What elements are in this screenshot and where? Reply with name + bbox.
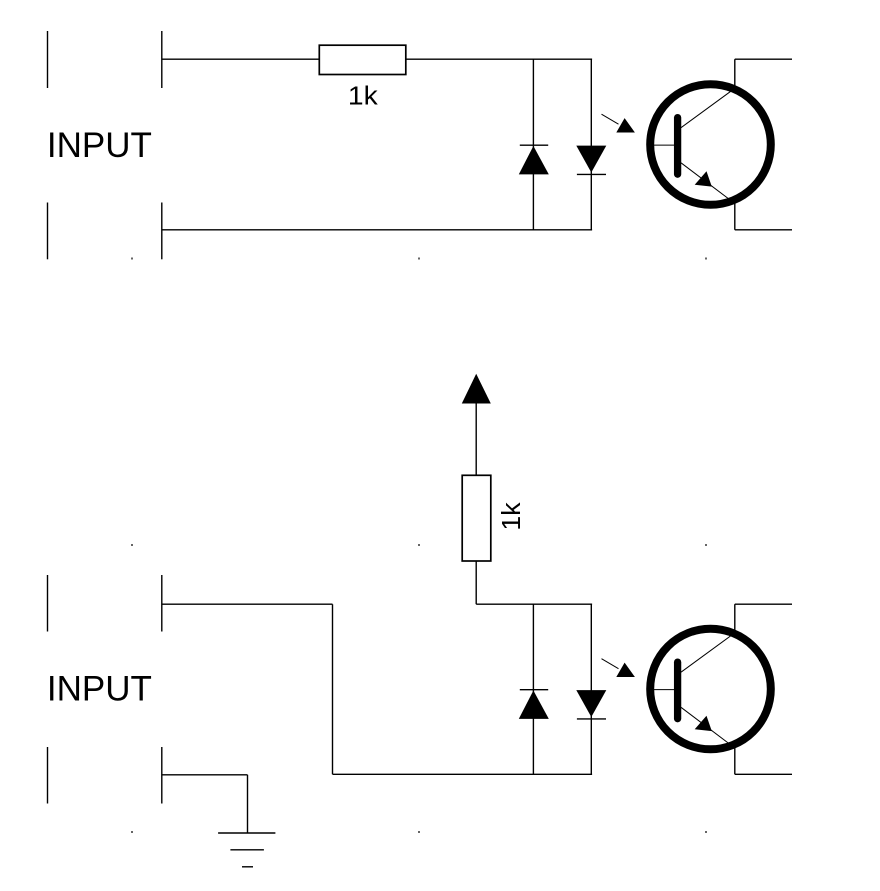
grid dot <box>131 544 133 546</box>
wire: Q1 collector vertical <box>734 59 736 89</box>
Q1 emitter arrow <box>695 171 712 186</box>
wire: Q2 collector out (right) <box>735 603 792 605</box>
connector J1 pin 1 inner bar <box>161 31 163 88</box>
light arrow head <box>616 118 635 132</box>
svg-text:1k: 1k <box>498 502 526 530</box>
connector J1 pin 1 outer bar <box>47 31 49 88</box>
wire: VCC to R2 <box>475 403 477 476</box>
svg-text:INPUT: INPUT <box>47 126 152 165</box>
resistor R1 body <box>319 45 406 74</box>
wire: LED D1 branch vertical <box>532 59 534 230</box>
Q1 collector line <box>681 88 735 128</box>
Q2 emitter arrow <box>695 716 712 731</box>
wire: Q2 emitter vertical <box>734 745 736 775</box>
diode D3 (points up) cathode bar <box>520 689 548 691</box>
wire: J1 pin1 to resistor R1 <box>162 58 319 60</box>
grid dot <box>705 258 707 260</box>
connector J2 pin 1 outer bar <box>47 575 49 632</box>
grid dot <box>418 258 420 260</box>
wire: emitter out (bottom right) <box>735 229 792 231</box>
wire: LED top rail <box>476 603 592 605</box>
wire: step down vertical <box>332 604 334 774</box>
ground bar 1 <box>218 832 275 834</box>
Q1 emitter line <box>681 163 734 203</box>
grid dot <box>131 258 133 260</box>
svg-text:INPUT: INPUT <box>47 669 152 708</box>
Q2 emitter line <box>681 707 734 747</box>
phototransistor Q2 circle <box>650 629 771 750</box>
Q1 base lead stub <box>648 144 674 146</box>
wire: J2 pin2 to ground <box>162 774 248 776</box>
VCC power arrow <box>462 374 491 404</box>
grid dot <box>418 831 420 833</box>
wire: LED D2 branch vertical <box>590 59 592 230</box>
wire: R2 to LED top rail <box>475 561 477 604</box>
grid dot <box>418 544 420 546</box>
wire: LED D3 branch vertical <box>532 604 534 774</box>
connector J1 pin 2 inner bar <box>161 203 163 260</box>
wire: J2 pin1 horizontal <box>162 603 333 605</box>
wire: ground drop <box>247 775 249 833</box>
Q2 base bar <box>674 662 681 719</box>
wire: Q1 emitter vertical <box>734 200 736 230</box>
svg-text:1k: 1k <box>348 82 378 110</box>
wire: step to LED bottom rail <box>333 773 593 775</box>
wire: Q2 collector vertical <box>734 604 736 633</box>
diode D3 triangle <box>519 691 549 719</box>
connector J1 pin 2 outer bar <box>47 203 49 260</box>
light arrow shaft (optocoupler U2) <box>602 659 619 669</box>
connector J2 pin 2 inner bar <box>161 747 163 804</box>
wire: J1 pin2 bottom rail <box>162 229 592 231</box>
light arrow head <box>616 663 635 677</box>
ground bar 3 <box>242 866 253 868</box>
light arrow shaft (optocoupler U1 top) <box>602 114 619 124</box>
LED D4 (points down) triangle <box>576 690 606 717</box>
resistor R2 body (vertical) <box>462 475 491 561</box>
grid dot <box>705 831 707 833</box>
LED D2 cathode bar <box>577 173 606 175</box>
Q2 collector line <box>681 633 735 673</box>
diode D1 triangle <box>519 146 549 174</box>
diode D1 (points up) cathode bar <box>520 144 548 146</box>
LED D4 cathode bar <box>577 718 606 720</box>
connector J2 pin 2 outer bar <box>47 747 49 804</box>
phototransistor Q1 circle <box>650 84 771 205</box>
wire: collector out (top right) <box>735 58 792 60</box>
LED D2 (points down) triangle <box>576 146 606 173</box>
wire: LED D4 branch vertical <box>590 604 592 774</box>
wire: Q2 emitter out (right) <box>735 773 792 775</box>
Q1 base bar <box>674 118 681 175</box>
grid dot <box>131 831 133 833</box>
wire: R1 to LED anode node <box>406 58 592 60</box>
ground bar 2 <box>230 849 264 851</box>
connector J2 pin 1 inner bar <box>161 575 163 632</box>
grid dot <box>705 544 707 546</box>
Q2 base lead stub <box>648 689 674 691</box>
